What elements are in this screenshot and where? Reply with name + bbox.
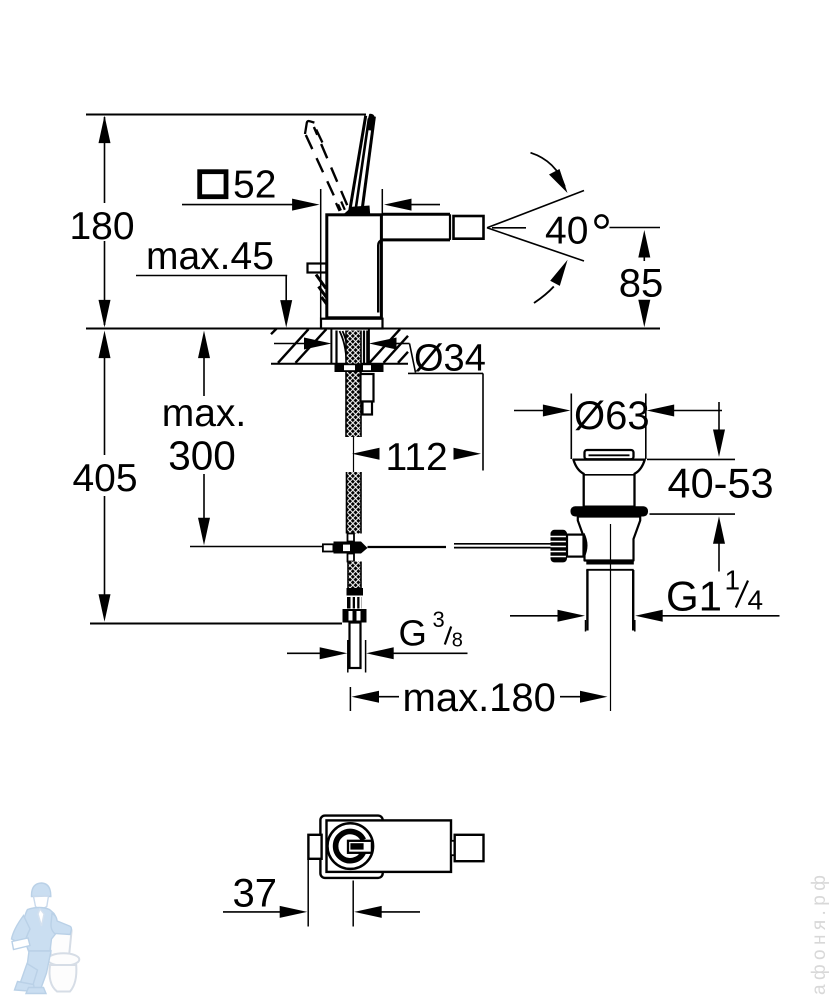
pop-up rod clamp fitting (323, 542, 368, 554)
aerator nozzle (454, 216, 484, 239)
wire top reference line (tip of lever level) (86, 114, 366, 116)
knob knurl stripes (551, 537, 568, 557)
hose tube below fitting (348, 554, 355, 562)
countertop hatching left of hole (271, 328, 326, 362)
label G 3/8 (399, 607, 463, 654)
spout inner waterway (378, 240, 383, 313)
top view lever slot (348, 841, 372, 853)
braided hose upper segment (346, 331, 361, 438)
dimension 40-53 lower arrow (713, 516, 725, 571)
svg-text:Ø63: Ø63 (574, 394, 650, 438)
lever handle alternate position (dashed) (305, 121, 348, 211)
max.180 left extension line (349, 687, 351, 711)
pop-up waste rubber seal (571, 506, 649, 516)
svg-text:40-53: 40-53 (668, 460, 774, 507)
watermark plumber figure (12, 883, 80, 994)
svg-text:112: 112 (386, 436, 448, 479)
dimension sq52 extension lines (321, 189, 383, 318)
dimension 112 arrows (352, 448, 481, 460)
40 degree upper arc arrow (531, 153, 568, 193)
pop-up waste valve body (578, 517, 640, 561)
top view body square (320, 816, 382, 878)
waste centerline (610, 524, 612, 711)
dimension max.300 vertical line (198, 331, 210, 546)
svg-text:1: 1 (725, 565, 741, 596)
dimension G1 1/4 arrows (510, 610, 780, 632)
knurled compression nut (347, 597, 362, 609)
hose end collar (347, 588, 364, 596)
pull rod knurled knob (551, 530, 568, 563)
svg-text:Ø34: Ø34 (414, 338, 486, 380)
svg-text:4: 4 (748, 585, 764, 616)
bottom reference line of 405 (90, 623, 342, 625)
top view spout (327, 820, 452, 872)
40-53 upper extension line (647, 458, 735, 460)
svg-text:3: 3 (433, 607, 445, 632)
countertop top surface line (86, 328, 660, 330)
dimension 180 vertical line (99, 116, 111, 328)
faucet base flange (321, 319, 383, 329)
pop-up rod housing below nut (361, 374, 374, 415)
svg-text:405: 405 (72, 457, 137, 500)
svg-text:8: 8 (452, 630, 463, 652)
svg-text:40: 40 (545, 210, 588, 253)
svg-text:афоня.рф: афоня.рф (809, 871, 830, 995)
countertop bottom surface line (271, 363, 408, 365)
svg-text:max.45: max.45 (146, 235, 274, 278)
svg-text:max.: max. (162, 392, 247, 435)
knob stem (567, 534, 587, 558)
label G1 1/4 (666, 565, 763, 620)
pop-up waste flange (trumpet brim and neck) (573, 460, 644, 507)
spout (382, 214, 450, 240)
svg-text:37: 37 (233, 872, 278, 916)
top view nozzle connector (451, 841, 455, 855)
40-53 lower extension line (650, 513, 736, 515)
svg-text:52: 52 (233, 164, 276, 207)
40 degree lower arc arrow (534, 260, 568, 303)
dimension 40-53 upper arrow (713, 402, 725, 457)
dimension D63 arrows (514, 394, 722, 460)
dimension 85 vertical line (638, 230, 650, 327)
dimension 405 vertical line (99, 331, 111, 622)
svg-text:180: 180 (69, 205, 134, 248)
braided hose lower segment (347, 472, 362, 534)
pop-up rod horizontal right segments (368, 544, 552, 548)
hose tube above fitting (348, 534, 355, 542)
valve body bottom lip (586, 560, 634, 570)
supply pipe G3/8 (350, 623, 361, 669)
G3/8 extension lines (348, 640, 366, 673)
max.45 leader line (136, 276, 292, 328)
37 extension lines (308, 859, 353, 927)
dimension D34 arrows at shank hole (274, 338, 483, 374)
dimension max.180 arrows (352, 691, 608, 703)
dimension 37 arrows (223, 906, 420, 918)
dimension sq52 arrows (182, 199, 440, 211)
top view nozzle (455, 835, 484, 861)
pop-up rod tab on body left (308, 264, 328, 305)
hose break centerline (353, 437, 355, 472)
faucet body (327, 215, 382, 318)
svg-text:300: 300 (168, 433, 236, 479)
top view cartridge inner ring (336, 832, 364, 861)
svg-text:G1: G1 (666, 573, 722, 620)
braided hose third segment (348, 562, 361, 589)
pop-up waste push button (585, 450, 634, 459)
lever handle (solid position) (343, 114, 375, 215)
supply connection nut (343, 609, 367, 623)
svg-text:max.180: max.180 (403, 676, 556, 720)
countertop hatching right of hole (370, 329, 409, 363)
pop-up rod horizontal left segment (190, 546, 323, 548)
top view handle outer circle (328, 823, 374, 869)
supply hose shank inside countertop hole (331, 330, 369, 364)
square symbol of sq52 (200, 172, 226, 197)
112 right extension line (482, 373, 484, 470)
dimension G3/8 arrows (287, 647, 468, 659)
waste tailpipe (587, 570, 633, 631)
top view left tab (308, 835, 321, 859)
line right of 40 deg (610, 227, 661, 229)
mounting nut under countertop (335, 364, 384, 373)
svg-text:G: G (399, 613, 427, 654)
svg-text:85: 85 (619, 262, 664, 306)
dimension 40 degree fan lines (487, 191, 584, 262)
